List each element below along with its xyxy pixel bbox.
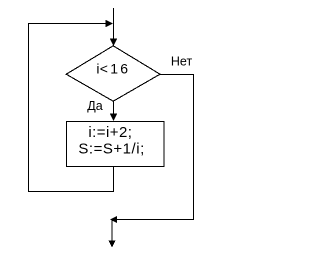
svg-text:Нет: Нет — [171, 54, 193, 68]
process box P1: i:=i+2; S:=S+1/i; — [67, 122, 165, 167]
wire: vertical from process box bottom down to loop-back — [113, 166, 115, 192]
wire: loop-back left vertical — [28, 23, 30, 192]
label: Нет (no branch) — [171, 54, 193, 68]
svg-text:i:=i+2;: i:=i+2; — [88, 124, 132, 141]
wire: Да vertical from diamond bottom into process box — [110, 101, 117, 121]
label: Да (yes branch) — [87, 99, 102, 113]
svg-text:Да: Да — [87, 99, 102, 113]
wire: entry vertical from top into decision diamond — [110, 8, 117, 46]
decision diamond D1: i < 16 — [66, 46, 160, 101]
wire: loop-back bottom horizontal — [28, 191, 114, 193]
wire: Нет right vertical — [193, 74, 195, 220]
svg-text:S:=S+1/i;: S:=S+1/i; — [78, 140, 144, 157]
wire: loop-back top horizontal with right arrowhead into entry line — [28, 20, 113, 27]
svg-text:i<16: i<16 — [96, 61, 128, 77]
wire: Нет bottom horizontal with left arrowhead — [110, 216, 194, 223]
wire: exit vertical with down arrowhead — [108, 220, 115, 248]
wire: Нет horizontal from diamond right vertex — [160, 74, 194, 76]
